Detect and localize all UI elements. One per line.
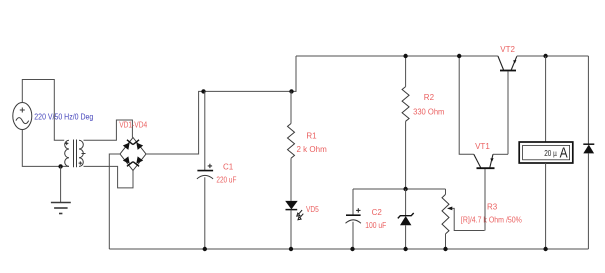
svg-text:[R]/4.7 k Ohm /50%: [R]/4.7 k Ohm /50%: [461, 215, 522, 224]
svg-text:R1: R1: [306, 132, 317, 141]
ground: [51, 166, 71, 213]
zener diode VD6: [398, 189, 414, 249]
node junction: [289, 247, 293, 251]
wire secondary top to bridge top vertex: [84, 120, 133, 140]
svg-text:VT1: VT1: [475, 142, 490, 151]
wire bridge left vertex to bottom rail: [109, 154, 120, 249]
wire source bottom to primary bottom: [22, 130, 69, 167]
wire secondary bottom to bridge bottom vertex: [84, 166, 134, 188]
wire source top to transformer primary top: [22, 80, 64, 141]
svg-text:220 V/50 Hz/0 Deg: 220 V/50 Hz/0 Deg: [34, 112, 93, 121]
resistor R1: [288, 91, 295, 200]
bridge rectifier VD1-VD4: [120, 138, 146, 171]
transformer T1: [65, 140, 86, 168]
AC source V1: [13, 103, 32, 130]
bottom rail: [109, 248, 588, 250]
svg-text:2 k Ohm: 2 k Ohm: [297, 145, 328, 154]
potentiometer R3: [442, 189, 485, 249]
diode VD4 bottom-right: [133, 156, 143, 166]
diode VD2 top-right: [133, 140, 143, 150]
node junction: [543, 247, 547, 251]
node junction: [403, 187, 407, 191]
node junction: [403, 54, 407, 58]
top plus rail: [296, 55, 498, 57]
svg-text:VT2: VT2: [500, 45, 515, 54]
diode VD1 top-left: [123, 140, 133, 150]
node junction: [203, 247, 207, 251]
node junction: [457, 54, 461, 58]
transistor VT2: [498, 56, 517, 154]
node rail C2 / zener / pot: [353, 188, 446, 190]
capacitor C2: [346, 189, 361, 249]
resistor R2: [402, 56, 409, 189]
svg-text:220 uF: 220 uF: [216, 176, 236, 185]
plus mid rail: [204, 56, 297, 91]
svg-text:100 uF: 100 uF: [365, 221, 386, 230]
svg-text:R2: R2: [424, 93, 435, 102]
svg-text:330 Ohm: 330 Ohm: [413, 108, 445, 117]
svg-text:C2: C2: [372, 208, 383, 217]
svg-text:VD5: VD5: [306, 205, 319, 214]
node junction: [201, 89, 205, 93]
svg-text:VD1-VD4: VD1-VD4: [119, 120, 147, 129]
svg-text:C1: C1: [223, 163, 234, 172]
node junction: [543, 54, 547, 58]
LED VD5: [285, 201, 303, 249]
transistor VT1: [459, 56, 508, 231]
ammeter PA1: [519, 56, 573, 249]
svg-text:A: A: [560, 146, 568, 162]
diode VD3 bottom-left: [123, 156, 133, 166]
capacitor C1: [197, 91, 213, 249]
diode VD7 right edge: [583, 56, 594, 249]
node junction at ground: [58, 164, 62, 168]
svg-text:20 µ: 20 µ: [544, 149, 557, 158]
node junction: [443, 247, 447, 251]
node junction: [350, 247, 354, 251]
svg-text:R3: R3: [487, 202, 498, 211]
node junction: [289, 89, 293, 93]
node junction: [403, 247, 407, 251]
wire bridge right vertex up to plus rail: [146, 91, 204, 154]
